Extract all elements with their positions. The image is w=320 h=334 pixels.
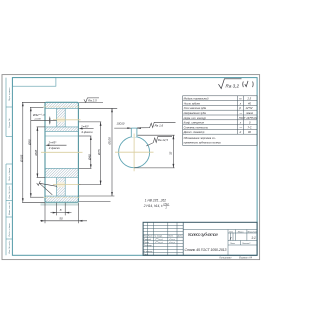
svg-text:Лит.: Лит. — [228, 231, 234, 233]
svg-text:Ø32⁺⁰˒²¹: Ø32⁺⁰˒²¹ — [32, 113, 44, 117]
svg-text:Инв. № дубл.: Инв. № дубл. — [8, 185, 11, 198]
svg-text:—: — — [239, 112, 243, 115]
svg-text:Утв.: Утв. — [144, 254, 149, 256]
svg-text:2 H14, h14, ±: 2 H14, h14, ± — [143, 204, 163, 208]
svg-text:Листов 1: Листов 1 — [241, 243, 250, 245]
svg-text:Взам. инв. №: Взам. инв. № — [8, 201, 11, 215]
svg-text:Ø48: Ø48 — [34, 149, 38, 156]
svg-text:Ø105: Ø105 — [19, 154, 23, 163]
svg-text:Ø100: Ø100 — [108, 137, 112, 146]
svg-text:Колесо зубчатое: Колесо зубчатое — [188, 232, 218, 237]
svg-text:Модуль нормальный: Модуль нормальный — [184, 97, 209, 101]
svg-text:у: у — [229, 236, 232, 240]
svg-text:Лист: Лист — [229, 243, 235, 245]
svg-text:Коэф. смещения: Коэф. смещения — [184, 121, 205, 125]
svg-text:Ø88: Ø88 — [27, 139, 31, 146]
svg-text:7-C: 7-C — [248, 125, 252, 129]
svg-text:Угол наклона зуба: Угол наклона зуба — [184, 106, 207, 110]
svg-text:Справ. №: Справ. № — [8, 118, 11, 128]
svg-text:Подп. и дата: Подп. и дата — [8, 223, 11, 237]
svg-text:Формат А4: Формат А4 — [239, 257, 253, 260]
svg-text:Пров.: Пров. — [144, 242, 150, 244]
svg-text:12°52': 12°52' — [246, 106, 254, 110]
svg-text:Ra 2,5: Ra 2,5 — [88, 99, 97, 103]
svg-text:Число зубьев: Число зубьев — [184, 101, 201, 105]
svg-text:Дата: Дата — [177, 236, 183, 238]
svg-text:Обозначение чертежа со-: Обозначение чертежа со- — [184, 136, 216, 140]
svg-text:ГОСТ 13755-81: ГОСТ 13755-81 — [239, 116, 258, 120]
svg-text:4 фаски: 4 фаски — [81, 130, 93, 134]
svg-text:+0,010: +0,010 — [34, 119, 42, 121]
svg-text:—: — — [239, 126, 243, 129]
svg-text:Степень точности: Степень точности — [184, 125, 209, 129]
svg-text:Подп. и дата: Подп. и дата — [8, 167, 11, 181]
svg-text:Н.контр.: Н.контр. — [144, 251, 154, 253]
svg-text:10D10: 10D10 — [117, 121, 125, 125]
svg-text:Ø40: Ø40 — [87, 154, 91, 161]
svg-text:2×45°: 2×45° — [48, 140, 58, 144]
svg-text:Т.контр.: Т.контр. — [144, 245, 153, 247]
svg-text:32: 32 — [169, 151, 173, 155]
svg-text:2,5: 2,5 — [247, 97, 252, 101]
svg-text:пряженного зубчатого колеса: пряженного зубчатого колеса — [184, 141, 222, 145]
svg-text:Масса: Масса — [238, 231, 244, 233]
svg-text:Масштаб: Масштаб — [248, 231, 258, 233]
svg-text:Перв. примен.: Перв. примен. — [9, 87, 11, 101]
svg-text:Сталь 45 ГОСТ 1050-2013: Сталь 45 ГОСТ 1050-2013 — [185, 248, 227, 252]
svg-text:Инв. № подл.: Инв. № подл. — [8, 240, 11, 253]
svg-text:50: 50 — [59, 217, 63, 221]
svg-text:Делит. диаметр: Делит. диаметр — [183, 130, 205, 134]
svg-text:Разраб.: Разраб. — [144, 239, 152, 241]
svg-text:Копировал: Копировал — [220, 257, 233, 260]
svg-text:Ra 1,6: Ra 1,6 — [155, 123, 164, 127]
svg-text:1:1: 1:1 — [251, 236, 256, 240]
svg-text:№ докум.: № докум. — [154, 235, 163, 238]
svg-text:Норм. исх. контур: Норм. исх. контур — [184, 116, 207, 120]
svg-text:Подп.: Подп. — [168, 235, 174, 238]
svg-text:1 HB 235...262: 1 HB 235...262 — [145, 198, 166, 202]
svg-text:левое: левое — [245, 112, 254, 115]
svg-text:Направление зуба: Направление зуба — [184, 111, 207, 115]
svg-text:Лист: Лист — [147, 236, 153, 238]
svg-text:Ra 12,5: Ra 12,5 — [158, 138, 169, 142]
svg-text:4 фаски: 4 фаски — [49, 146, 61, 150]
svg-text:Ra 3,2: Ra 3,2 — [226, 83, 240, 88]
svg-text:Ø75: Ø75 — [97, 149, 101, 156]
